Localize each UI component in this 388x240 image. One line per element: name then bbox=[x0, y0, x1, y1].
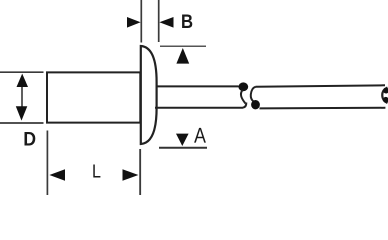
break symbol 3 at right edge (partially cut off) bbox=[382, 88, 387, 104]
dimension L left extension line bbox=[46, 131, 48, 196]
mandrel segment 2 top line bbox=[256, 85, 386, 87]
dimension L right extension line bbox=[139, 149, 141, 195]
dimension L right arrowhead bbox=[123, 169, 139, 180]
dimension A up arrowhead bbox=[176, 48, 189, 64]
rivet head (dome) bbox=[141, 46, 157, 144]
dimension B right extension line bbox=[158, 0, 160, 42]
label D bbox=[25, 132, 36, 146]
dimension D bottom extension line bbox=[0, 122, 44, 124]
break symbol 2 blob bbox=[251, 100, 260, 109]
dimension A down arrowhead bbox=[176, 134, 189, 146]
mandrel segment 1 bottom line bbox=[155, 103, 246, 108]
dimension D down arrowhead bbox=[16, 106, 27, 120]
dimension A bottom reference line bbox=[159, 147, 207, 149]
dimension B left arrowhead bbox=[127, 17, 141, 28]
dimension B left extension line bbox=[140, 0, 142, 43]
label B bbox=[182, 15, 192, 29]
dimension L left arrowhead bbox=[49, 169, 65, 180]
dimension D top extension line bbox=[0, 71, 44, 73]
break symbol 1 S-curve bbox=[241, 90, 246, 104]
dimension A top reference line bbox=[160, 45, 206, 47]
break symbol 3 lower blob bbox=[383, 97, 388, 103]
label L bbox=[93, 165, 100, 178]
dimension D up arrowhead bbox=[17, 74, 29, 87]
mandrel segment 2 bottom line bbox=[260, 107, 386, 110]
break symbol 3 upper blob bbox=[383, 88, 388, 94]
dimension D line bbox=[21, 85, 23, 108]
break symbol 1 blob bbox=[238, 82, 248, 91]
head face extension line down to bottom edge bbox=[139, 149, 141, 195]
label A bbox=[194, 128, 206, 143]
dimension B right arrowhead bbox=[159, 17, 173, 28]
break symbol 2 S-curve and corner bbox=[251, 87, 256, 102]
rivet body bbox=[47, 72, 140, 122]
mandrel segment 1 top line bbox=[156, 85, 239, 87]
